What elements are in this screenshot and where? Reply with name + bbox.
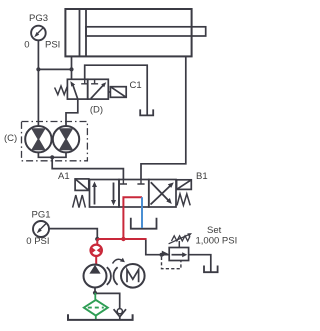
tank symbol T3 [204,266,218,273]
main valve right solenoid [177,180,192,190]
wire node line [38,68,71,70]
svg-text:PG3: PG3 [29,13,48,24]
relief valve adjustment arrow [169,234,190,244]
wire junction to check valve [95,293,120,308]
main valve box2 T leg blue [141,197,143,207]
main valve box1 down arrow [113,183,115,203]
svg-text:0 PSI: 0 PSI [26,236,49,247]
junction dot pump line [95,237,99,241]
svg-text:(C): (C) [4,133,17,144]
main valve left solenoid [75,179,89,191]
svg-text:0: 0 [24,40,29,51]
wire red manifold [97,238,146,240]
main valve body boxes [90,180,177,208]
wire relief outlet to tank [189,255,211,272]
main valve box2 blocked port A [120,180,127,185]
coupling rotation arrow [113,259,123,263]
main valve box2 blocked port B [137,180,144,185]
C1 return spring [55,86,68,95]
C1 right box flow arrow [91,85,104,99]
C1 solenoid [108,87,126,98]
main valve box2 P-T path red [123,197,142,207]
C1 left box blocked port [81,79,88,84]
svg-text:C1: C1 [130,80,142,91]
node dot (cylinder tap) [69,67,73,71]
flow divider motor right [53,126,79,152]
reservoir [68,314,133,320]
coupling pump-motor [107,267,111,285]
flow meter FM [91,245,102,256]
gauge PG3 [31,26,46,41]
tank symbol T1 [140,109,153,115]
svg-text:PG1: PG1 [31,210,50,221]
relief valve RV1 [169,248,188,261]
wire divider outlets to valve port A1 [38,152,66,157]
main valve right spring [177,194,190,206]
main valve left spring [73,195,86,208]
motor M1 [121,264,145,288]
svg-text:1,000 PSI: 1,000 PSI [196,236,238,247]
wire PG1 to pump line [49,229,97,239]
valve C1 body [67,79,108,99]
relief valve inlet arrow [162,251,168,257]
wire valve P riser red [122,207,124,239]
node dot (PG3 line) [36,67,40,71]
wire cylinder rod port to valve port B1 [141,56,186,179]
junction dot divider outlet [50,155,54,159]
wire C1 bottom to flow divider [66,99,78,126]
wire C1 drain to tank [85,65,148,115]
junction dot P riser [121,237,125,241]
svg-text:Set: Set [207,225,222,236]
svg-text:(D): (D) [90,105,103,116]
svg-text:A1: A1 [58,171,70,182]
junction dot relief pilot [160,253,164,257]
filter F1 [84,300,108,320]
relief valve pilot dashed line [162,257,181,269]
main valve box1 up arrow [94,185,96,205]
svg-text:B1: B1 [196,171,208,182]
pump P1 [84,265,107,288]
gauge PG1 [33,221,49,237]
svg-text:PSI: PSI [45,40,60,51]
flow divider (C) dashed enclosure [22,122,88,161]
flow divider motor left [25,126,51,152]
wire junction to flow meter red [96,239,98,244]
wire cylinder cap port to valve C1 [71,56,73,79]
wire PG3 down to flow divider [37,40,39,126]
wire flow meter to pump red [95,257,97,265]
label M motor [127,270,139,283]
C1 left box flow arrow [72,84,77,99]
wire junction to filter green [94,293,96,300]
check valve CV1 [114,309,126,320]
wire valve T to tank blue [141,207,143,228]
relief valve spring [172,236,191,241]
C1 right box blocked port [91,79,98,84]
main valve box3 cross arrows [151,186,171,205]
cylinder [65,9,205,56]
junction dot pump drain [93,291,97,295]
tank symbol T2 [131,218,157,229]
wire pump outlet down [94,288,96,293]
wire to relief valve [146,240,169,255]
